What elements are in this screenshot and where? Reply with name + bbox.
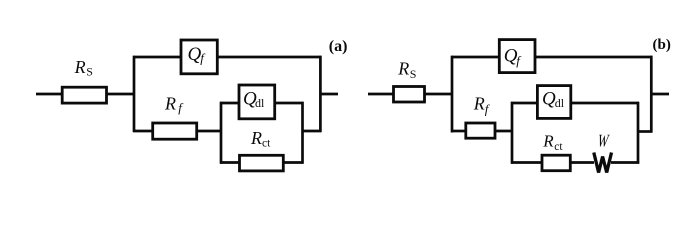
svg-text:ct: ct <box>262 138 271 150</box>
svg-text:f: f <box>200 51 206 66</box>
svg-text:R: R <box>250 128 262 148</box>
svg-text:W: W <box>597 131 611 151</box>
svg-text:f: f <box>516 53 522 68</box>
svg-text:(b): (b) <box>653 37 671 53</box>
svg-text:R: R <box>473 94 485 114</box>
svg-text:S: S <box>410 67 417 81</box>
svg-text:ct: ct <box>554 141 563 153</box>
svg-text:(a): (a) <box>329 38 348 55</box>
svg-text:dl: dl <box>255 96 265 110</box>
svg-text:S: S <box>86 65 93 79</box>
svg-text:R: R <box>74 57 86 77</box>
svg-text:R: R <box>542 132 554 151</box>
svg-text:R: R <box>164 94 176 114</box>
svg-text:R: R <box>397 59 409 79</box>
svg-text:f: f <box>178 100 184 115</box>
svg-text:f: f <box>485 102 491 117</box>
svg-text:dl: dl <box>555 96 565 110</box>
